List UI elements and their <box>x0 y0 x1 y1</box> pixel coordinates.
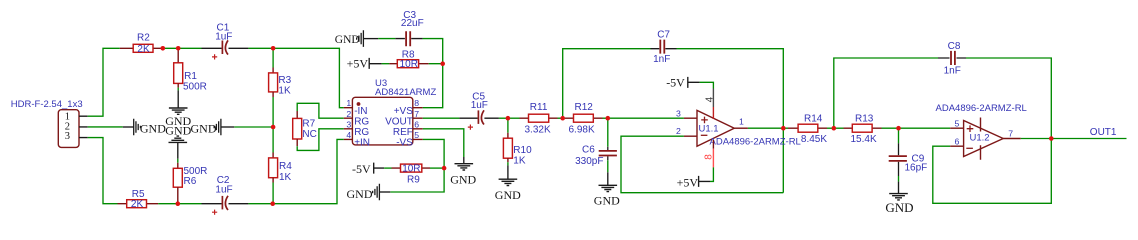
junction dot output <box>1049 136 1054 141</box>
svg-text:3.32K: 3.32K <box>525 124 551 135</box>
wire -VS node down to GND flag <box>390 168 444 192</box>
wire -VS node up to pin5 <box>423 139 444 168</box>
svg-text:R12: R12 <box>575 102 594 113</box>
wire R9 to -VS node <box>430 167 444 169</box>
svg-text:10R: 10R <box>400 59 418 70</box>
svg-text:C6: C6 <box>582 144 595 155</box>
junction dot +VS <box>440 61 445 66</box>
wire +5V to pin8 <box>710 167 713 181</box>
svg-text:U1.1: U1.1 <box>699 124 719 135</box>
svg-text:GND: GND <box>450 173 476 187</box>
wire R11 to node2 <box>558 117 563 119</box>
svg-text:R7: R7 <box>302 119 315 130</box>
capacitor C8 1nF <box>938 41 966 76</box>
junction dot R6 bottom <box>176 201 181 206</box>
wire C3 to +VS node <box>423 39 443 64</box>
pin 4 power top <box>712 107 714 119</box>
svg-text:1uF: 1uF <box>215 184 232 195</box>
wire R12 to node3 <box>603 117 608 119</box>
wire U1.1 output to R14 <box>748 127 788 129</box>
svg-text:6.98K: 6.98K <box>569 124 595 135</box>
svg-text:1: 1 <box>739 116 744 126</box>
resistor R1 500R <box>174 48 207 92</box>
svg-text:6: 6 <box>414 120 419 130</box>
resistor R10 1K <box>503 118 532 167</box>
svg-text:3: 3 <box>676 109 681 119</box>
ground flag left at conn pin2 <box>88 119 167 136</box>
svg-text:VOUT: VOUT <box>385 117 413 128</box>
wire bottom rail to U3 pin4 <box>248 139 343 203</box>
svg-text:ADA4896-2ARMZ-RL: ADA4896-2ARMZ-RL <box>710 136 801 147</box>
svg-text:7: 7 <box>1008 128 1013 138</box>
resistor R13 15.4K <box>834 114 882 145</box>
ground flag right to R3/R4 node <box>191 119 274 136</box>
svg-text:1K: 1K <box>279 172 292 183</box>
wire -5V to pin4 <box>700 82 714 88</box>
wire R7 bottom to U3 pin3 <box>297 129 344 151</box>
svg-text:R14: R14 <box>804 114 823 125</box>
wire ground to R6 <box>177 159 179 163</box>
svg-text:+VS: +VS <box>394 106 414 117</box>
junction dot R3 top <box>271 46 276 51</box>
wire node3 to U1.1 pin3 <box>608 117 684 119</box>
wire R7 top to U3 pin2 <box>297 103 344 118</box>
wire top rail middle <box>163 47 202 49</box>
junction dot C5/R10/R11 <box>506 116 511 121</box>
resistor R11 3.32K <box>508 102 558 136</box>
svg-text:2K: 2K <box>137 44 150 55</box>
svg-text:R2: R2 <box>137 32 150 43</box>
pin 8 power bottom <box>712 140 714 149</box>
svg-text:NC: NC <box>302 129 316 140</box>
svg-text:1uF: 1uF <box>471 100 488 111</box>
resistor R8 10R <box>382 49 429 70</box>
wire R1 to ground <box>177 88 179 91</box>
junction dot R11/R12/C7 <box>560 116 565 121</box>
svg-text:GND: GND <box>885 200 913 215</box>
wire R14 to node <box>827 127 834 129</box>
wire C5 to node <box>499 117 508 119</box>
resistor R7 NC <box>293 111 317 146</box>
svg-text:1nF: 1nF <box>653 54 670 65</box>
svg-text:R6: R6 <box>184 176 197 187</box>
wire pin1 to top rail <box>88 48 120 116</box>
svg-text:4: 4 <box>705 96 716 102</box>
svg-text:HDR-F-2.54_1x3: HDR-F-2.54_1x3 <box>11 99 83 110</box>
capacitor C5 1uF <box>459 91 499 129</box>
svg-text:15.4K: 15.4K <box>851 134 877 145</box>
resistor R14 8.45K <box>788 114 827 145</box>
svg-text:5: 5 <box>414 130 419 140</box>
GND flag at C3 <box>335 30 378 47</box>
wire C7 branch <box>563 49 651 119</box>
wire pin3 to bottom rail <box>88 138 118 204</box>
ground at REF <box>450 157 476 187</box>
svg-text:R11: R11 <box>530 102 548 113</box>
svg-text:ADA4896-2ARMZ-RL: ADA4896-2ARMZ-RL <box>936 103 1027 114</box>
svg-text:4: 4 <box>346 130 351 140</box>
svg-text:C8: C8 <box>948 41 961 52</box>
svg-text:GND: GND <box>495 188 521 202</box>
junction dot A <box>161 46 166 51</box>
svg-text:8.45K: 8.45K <box>801 134 827 145</box>
svg-text:8: 8 <box>704 154 715 160</box>
wire R13 to node <box>882 127 899 129</box>
op-amp U1.2 ADA4896-2ARMZ-RL <box>936 103 1027 160</box>
svg-text:2K: 2K <box>131 199 144 210</box>
svg-text:GND: GND <box>594 193 620 207</box>
junction dot R4 bottom <box>270 201 275 206</box>
svg-text:-5V: -5V <box>352 162 371 176</box>
resistor R3 1K <box>269 48 292 127</box>
-5V flag at U1.1 <box>666 76 699 90</box>
svg-text:GND: GND <box>335 34 360 46</box>
svg-text:R13: R13 <box>855 114 874 125</box>
junction dot R3/R4 mid <box>271 125 276 130</box>
resistor R12 6.98K <box>563 102 603 136</box>
wire REF pin6 to ground <box>423 129 464 157</box>
wire R8 to +VS node and down to pin8 <box>423 64 443 108</box>
GND flag below R9 <box>347 184 391 201</box>
junction dot R1 top <box>176 46 181 51</box>
svg-text:GND: GND <box>165 123 191 137</box>
ground under R1 <box>165 90 191 128</box>
junction dot R14/R13/C8 <box>832 126 837 131</box>
svg-text:GND: GND <box>191 122 217 136</box>
ground under R10 <box>495 162 521 202</box>
svg-text:1K: 1K <box>278 85 291 96</box>
resistor R2 2K <box>120 32 163 54</box>
ground above R6 (inverted) <box>165 123 191 158</box>
junction dot U1.1 out <box>781 126 786 131</box>
svg-text:3: 3 <box>346 120 351 130</box>
svg-text:-5V: -5V <box>666 76 685 90</box>
svg-text:GND: GND <box>347 187 373 201</box>
wire node to U1.2 pin5 <box>899 127 951 129</box>
wire U1.2 pin6 feedback loop <box>933 137 1052 204</box>
svg-text:1nF: 1nF <box>944 66 961 77</box>
+5V flag at U1.1 <box>677 176 710 190</box>
wire bottom rail middle <box>158 203 201 205</box>
svg-text:+5V: +5V <box>347 57 369 71</box>
junction dot R12/C6/U1.1 <box>606 116 611 121</box>
svg-text:2: 2 <box>346 109 351 119</box>
wire loop up to output node <box>782 126 784 193</box>
svg-text:R10: R10 <box>513 145 532 156</box>
svg-text:10R: 10R <box>402 164 420 175</box>
capacitor C2 1uF <box>202 175 249 215</box>
svg-text:OUT1: OUT1 <box>1090 127 1117 138</box>
wire U1.2 output to OUT1 <box>1021 138 1127 140</box>
svg-text:16pF: 16pF <box>905 162 928 173</box>
wire C8 to out node <box>966 58 1051 137</box>
svg-text:U1.2: U1.2 <box>970 132 990 143</box>
svg-text:7: 7 <box>414 109 419 119</box>
connector P1 HDR-F-2.54_1x3 <box>11 99 88 147</box>
svg-text:R5: R5 <box>132 189 145 200</box>
svg-text:8: 8 <box>414 98 419 108</box>
wire GND flag to C3 <box>378 38 395 40</box>
svg-text:R9: R9 <box>407 175 420 186</box>
power stub ticks <box>980 118 982 160</box>
svg-text:2: 2 <box>676 126 681 136</box>
svg-text:-IN: -IN <box>354 106 367 117</box>
svg-text:+IN: +IN <box>354 138 370 149</box>
junction dot R13/C9/pin5 <box>896 126 901 131</box>
svg-text:1K: 1K <box>513 156 526 167</box>
ground under C6 <box>594 160 620 207</box>
svg-text:RG: RG <box>354 117 369 128</box>
svg-text:330pF: 330pF <box>575 156 603 167</box>
wire C7 to output node <box>677 49 784 126</box>
svg-text:-VS: -VS <box>396 138 413 149</box>
wire U1.1 pin2 feedback loop <box>621 136 783 193</box>
resistor R4 1K <box>269 127 293 204</box>
ground under C9 <box>885 176 913 215</box>
junction dot -VS <box>442 166 447 171</box>
resistor R5 2K <box>118 189 159 210</box>
svg-text:1: 1 <box>346 98 351 108</box>
svg-text:C7: C7 <box>657 30 670 41</box>
capacitor C9 16pF <box>889 128 928 176</box>
svg-text:R4: R4 <box>279 161 292 172</box>
capacitor C1 1uF <box>202 23 249 60</box>
wire VOUT to C5 <box>423 117 460 119</box>
capacitor C3 22uF <box>395 10 423 46</box>
resistor R9 10R <box>384 164 430 186</box>
-5V flag at R9 <box>352 162 384 176</box>
wire top rail to U3 pin1 <box>248 48 343 107</box>
svg-text:5: 5 <box>955 119 960 129</box>
svg-text:500R: 500R <box>183 81 207 92</box>
capacitor C6 330pF <box>575 118 617 167</box>
svg-text:AD8421ARMZ: AD8421ARMZ <box>375 87 436 98</box>
+5V flag <box>347 57 382 71</box>
svg-text:6: 6 <box>955 137 960 147</box>
svg-text:1uF: 1uF <box>215 32 232 43</box>
svg-text:3: 3 <box>65 131 70 142</box>
svg-text:22uF: 22uF <box>401 18 424 29</box>
wire C8 branch <box>834 58 938 128</box>
svg-text:+5V: +5V <box>677 176 699 190</box>
svg-text:GND: GND <box>140 122 166 136</box>
op-amp U1.1 ADA4896-2ARMZ-RL <box>676 89 801 168</box>
resistor R6 500R <box>173 163 207 204</box>
capacitor C7 1nF <box>651 30 677 66</box>
op-amp U3 AD8421ARMZ <box>344 78 437 149</box>
